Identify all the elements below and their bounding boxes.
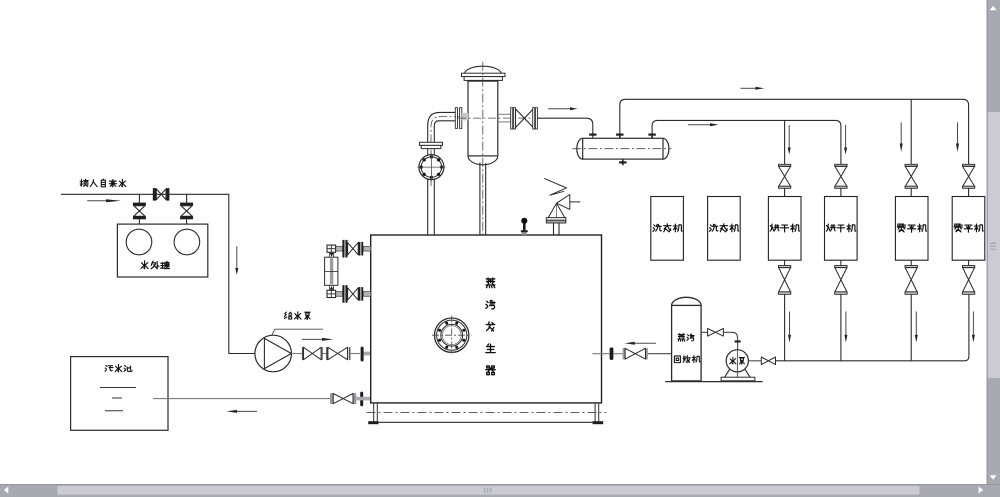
valve V12 <box>761 357 775 365</box>
flow arrow to recovery <box>625 342 656 345</box>
flange pump suction <box>735 340 741 342</box>
wire feed discharge <box>292 353 302 355</box>
valve steam outlet V9 <box>511 108 538 129</box>
steam recovery vessel <box>672 297 702 381</box>
flow arrow branch2 <box>844 125 847 155</box>
wire blowdown line to sewage pool <box>153 398 330 400</box>
machine box 熨平机 #6 <box>952 197 985 261</box>
pressure gauge PG <box>521 218 528 235</box>
label 蒸汽回收机 <box>678 334 694 342</box>
valve V11 <box>708 329 724 337</box>
label 污水池 <box>105 364 132 371</box>
flow arrow branch4 <box>956 122 959 152</box>
wire branch 3 from line A <box>910 99 912 164</box>
flow arrow return3 <box>915 312 918 343</box>
machine box 熨平机 #5 <box>895 197 928 261</box>
valve branch left V2 <box>133 203 146 225</box>
steam generator shell <box>371 235 602 403</box>
machine box 洗衣机 #2 <box>708 197 741 261</box>
flange stub header inlet <box>589 134 596 136</box>
wire recovery to water pump <box>701 332 738 350</box>
water pump P2 <box>721 350 755 381</box>
manhole flange <box>432 316 471 355</box>
steam header vessel <box>572 138 671 159</box>
label 水泵 <box>730 357 745 364</box>
flow arrow steam to header <box>548 107 578 110</box>
flow arrow branch3 <box>900 122 903 152</box>
drain stub header bottom <box>619 159 626 165</box>
flow arrow line B <box>688 123 719 126</box>
flow arrow blowdown <box>227 410 258 413</box>
flange stub line B <box>648 134 655 139</box>
valve supply V16 <box>962 164 974 196</box>
wire branch T left <box>138 194 140 202</box>
wire branch 1 from line B <box>784 120 786 164</box>
feed pump P1 <box>255 335 292 372</box>
flow arrow down to feed pump <box>235 246 238 275</box>
sewage pool box <box>71 357 168 431</box>
label 蒸汽发生器 vertical <box>486 278 495 375</box>
sight glass level gauge <box>325 252 338 290</box>
valve blowdown V4 <box>330 393 356 404</box>
water treatment tank 2 <box>174 229 200 255</box>
label 给水泵 <box>284 312 310 320</box>
flow arrow branch1 <box>788 125 791 155</box>
valve branch right V3 <box>180 203 193 225</box>
wire branch T right <box>186 194 188 202</box>
valve return V20 <box>962 260 974 294</box>
water treatment unit box <box>117 224 207 277</box>
flow arrow return4 <box>972 312 975 343</box>
valve supply V15 <box>905 164 917 196</box>
flange stub line A <box>616 134 623 139</box>
flow arrow inlet <box>87 199 121 202</box>
flow arrow line A <box>741 87 765 90</box>
bolted flange circle on riser <box>417 153 445 181</box>
water treatment tank 1 <box>126 229 152 255</box>
wire steam line to header <box>537 118 592 138</box>
water level marks <box>100 388 136 411</box>
machine box 洗衣机 #1 <box>651 197 684 261</box>
flange separator left nozzle <box>455 108 468 129</box>
flow arrow return2 <box>844 312 847 343</box>
flange recovery line <box>610 347 614 360</box>
separator vessel <box>462 62 506 235</box>
wire return drops <box>785 294 912 361</box>
safety valve PSV <box>544 178 580 235</box>
wire distribution line B (lower) <box>652 120 841 164</box>
valve supply V13 <box>778 164 790 196</box>
flange blowdown <box>356 392 381 407</box>
wire riser1 to generator top <box>428 179 435 235</box>
valve return V17 <box>778 260 790 294</box>
flow arrow return1 <box>788 312 791 343</box>
valve gauge bottom V8 <box>327 285 371 303</box>
valve recovery V10 <box>623 348 648 359</box>
valve gauge top V7 <box>327 240 371 258</box>
flange feed inlet <box>361 347 371 362</box>
wire distribution line A (top) <box>620 99 969 164</box>
leader line <box>269 329 323 340</box>
node tap-water inlet label <box>80 179 126 187</box>
wire generator steam-recovery line <box>592 353 671 355</box>
machine box 烘干机 #3 <box>768 197 801 261</box>
valve feed V5 <box>302 347 323 360</box>
wire condensate return header <box>776 294 969 360</box>
valve feed V6 <box>326 347 350 360</box>
flow arrow feed discharge <box>302 338 334 341</box>
label 水处理 <box>141 261 169 269</box>
horizontal scrollbar <box>0 484 1000 497</box>
wire inlet main line <box>61 194 255 353</box>
flange pair elbow-riser <box>420 142 443 155</box>
valve supply V14 <box>835 164 847 196</box>
separator right nozzle <box>458 114 548 122</box>
valve return V19 <box>905 260 917 294</box>
vertical scrollbar <box>987 0 1000 484</box>
wire riser2 separator bottom to generator <box>480 163 486 236</box>
valve return V18 <box>835 260 847 294</box>
valve main inlet V1 <box>153 188 170 201</box>
ground line <box>665 381 762 383</box>
generator base skid <box>367 404 607 425</box>
machine box 烘干机 #4 <box>825 197 858 261</box>
wire pump discharge <box>748 360 761 362</box>
pipe elbow from separator left nozzle <box>428 112 462 186</box>
